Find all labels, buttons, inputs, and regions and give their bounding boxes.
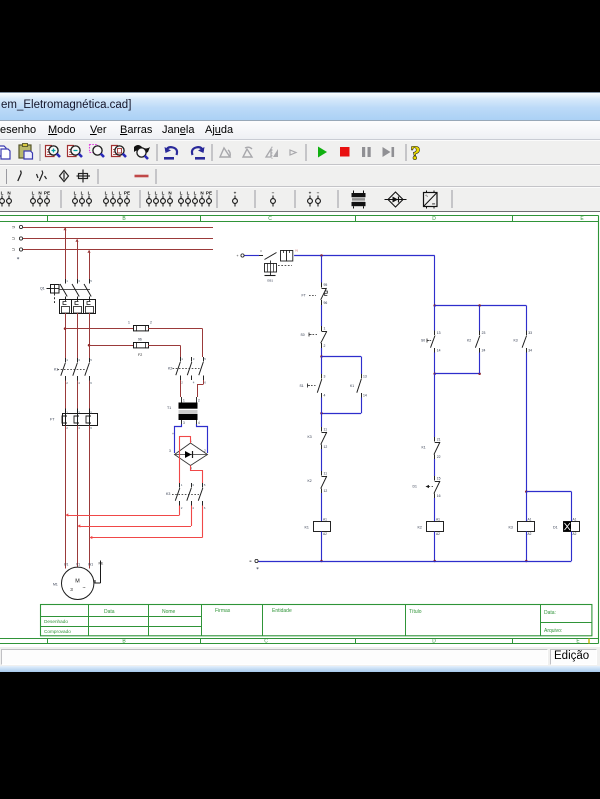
svg-text:Comprovado: Comprovado [44, 629, 71, 634]
svg-text:2: 2 [198, 399, 200, 403]
svg-text:+: + [234, 191, 237, 196]
svg-text:33: 33 [528, 331, 532, 335]
svg-text:M: M [75, 579, 80, 585]
svg-text:N: N [200, 191, 204, 196]
svg-text:11: 11 [324, 472, 328, 476]
svg-text:C: C [264, 638, 268, 644]
svg-text:Título: Título [409, 609, 422, 615]
svg-text:K2: K2 [168, 367, 172, 371]
svg-text:2: 2 [204, 449, 206, 453]
svg-text:3: 3 [192, 483, 194, 487]
svg-text:34: 34 [528, 349, 532, 353]
svg-text:3: 3 [78, 279, 80, 283]
svg-text:4: 4 [78, 426, 80, 430]
svg-text:95: 95 [324, 283, 328, 287]
svg-text:1: 1 [181, 483, 183, 487]
svg-text:K2: K2 [467, 339, 471, 343]
svg-text:1: 1 [128, 321, 130, 325]
svg-text:~: ~ [82, 586, 85, 592]
svg-text:−: − [317, 191, 320, 196]
svg-text:3: 3 [193, 357, 195, 361]
svg-text:D1: D1 [413, 485, 417, 489]
svg-text:Arquivo:: Arquivo: [544, 628, 562, 634]
svg-text:2: 2 [181, 506, 183, 510]
svg-text:15: 15 [437, 477, 441, 481]
svg-text:S0: S0 [421, 339, 425, 343]
svg-text:96: 96 [324, 301, 328, 305]
svg-text:A2: A2 [573, 532, 577, 536]
svg-text:K3: K3 [166, 492, 170, 496]
svg-text:FT: FT [302, 294, 306, 298]
svg-text:L: L [81, 191, 84, 196]
svg-text:N: N [296, 249, 298, 253]
svg-text:3: 3 [78, 358, 80, 362]
svg-text:A2: A2 [436, 532, 440, 536]
svg-text:D: D [432, 638, 436, 644]
svg-text:4: 4 [198, 421, 200, 425]
svg-text:S1: S1 [300, 384, 304, 388]
svg-text:A1: A1 [573, 518, 577, 522]
svg-text:3: 3 [183, 421, 185, 425]
svg-text:F2: F2 [138, 353, 142, 357]
svg-text:GB1: GB1 [267, 279, 273, 283]
svg-text:Nome: Nome [162, 609, 176, 615]
svg-text:3: 3 [169, 449, 171, 453]
svg-text:?: ? [411, 143, 421, 165]
svg-text:L: L [119, 191, 122, 196]
svg-text:L: L [74, 191, 77, 196]
svg-text:5: 5 [204, 483, 206, 487]
svg-text:L: L [162, 191, 165, 196]
svg-text:FT: FT [50, 418, 55, 422]
svg-text:⎓: ⎓ [432, 202, 436, 207]
svg-text:∗: ∗ [256, 566, 259, 571]
svg-text:PE: PE [206, 191, 212, 196]
svg-text:⊃: ⊃ [12, 247, 16, 252]
svg-text:Entidade: Entidade [272, 608, 292, 614]
svg-text:A1: A1 [436, 518, 440, 522]
svg-text:4: 4 [192, 506, 194, 510]
svg-text:3: 3 [70, 587, 73, 592]
svg-text:L: L [32, 191, 35, 196]
svg-text:A1: A1 [323, 518, 327, 522]
svg-text:A2: A2 [323, 532, 327, 536]
svg-text:2: 2 [66, 426, 68, 430]
svg-text:1: 1 [183, 399, 185, 403]
svg-text:D1: D1 [553, 526, 558, 530]
svg-text:L: L [155, 191, 158, 196]
svg-text:1: 1 [181, 357, 183, 361]
svg-text:22: 22 [437, 455, 441, 459]
svg-text:4: 4 [324, 394, 326, 398]
svg-text:96: 96 [138, 338, 142, 342]
svg-text:5: 5 [90, 358, 92, 362]
svg-text:N: N [168, 191, 172, 196]
svg-text:Data:: Data: [544, 610, 556, 616]
svg-text:K3: K3 [308, 435, 312, 439]
svg-text:∗: ∗ [16, 256, 19, 261]
svg-text:⊃: ⊃ [12, 236, 16, 241]
svg-text:5: 5 [204, 357, 206, 361]
svg-text:14: 14 [363, 394, 367, 398]
svg-text:5: 5 [90, 279, 92, 283]
svg-text:L: L [88, 191, 91, 196]
svg-text:21: 21 [437, 438, 441, 442]
svg-text:K3: K3 [514, 339, 518, 343]
svg-text:4: 4 [78, 381, 80, 385]
svg-text:N: N [38, 191, 42, 196]
svg-text:K1: K1 [350, 384, 354, 388]
svg-text:PE: PE [99, 562, 104, 566]
svg-text:PE: PE [124, 191, 130, 196]
svg-text:L: L [187, 191, 190, 196]
svg-text:6: 6 [90, 426, 92, 430]
svg-text:N: N [7, 191, 11, 196]
svg-text:K2: K2 [308, 479, 312, 483]
svg-text:1: 1 [66, 279, 68, 283]
svg-text:12: 12 [324, 489, 328, 493]
svg-text:6: 6 [90, 381, 92, 385]
svg-text:16: 16 [437, 494, 441, 498]
svg-text:1: 1 [324, 327, 326, 331]
svg-text:∿: ∿ [425, 193, 428, 198]
svg-text:6: 6 [204, 506, 206, 510]
svg-text:Data: Data [104, 609, 115, 615]
svg-text:L: L [194, 191, 197, 196]
svg-text:3: 3 [324, 375, 326, 379]
svg-text:A1: A1 [528, 518, 532, 522]
svg-text:+: + [172, 432, 174, 436]
svg-text:K1: K1 [54, 368, 58, 372]
svg-text:12: 12 [324, 445, 328, 449]
svg-text:+: + [309, 191, 312, 196]
svg-text:D: D [432, 216, 436, 222]
svg-text:A2: A2 [528, 532, 532, 536]
svg-text:≡: ≡ [249, 559, 252, 564]
svg-text:L: L [112, 191, 115, 196]
svg-text:2: 2 [150, 321, 152, 325]
svg-text:W1: W1 [88, 563, 93, 567]
svg-text:K1: K1 [305, 526, 309, 530]
svg-text:2: 2 [66, 381, 68, 385]
svg-text:U1: U1 [64, 563, 68, 567]
svg-text:2: 2 [181, 381, 183, 385]
svg-text:1: 1 [66, 358, 68, 362]
svg-text:+: + [236, 254, 239, 258]
svg-text:2: 2 [324, 344, 326, 348]
svg-text:13: 13 [437, 331, 441, 335]
svg-text:−: − [272, 191, 275, 196]
svg-text:L: L [180, 191, 183, 196]
svg-text:C: C [268, 216, 272, 222]
svg-text:Firmas: Firmas [215, 608, 231, 614]
svg-text:13: 13 [363, 375, 367, 379]
svg-text:6: 6 [204, 381, 206, 385]
svg-text:PE: PE [44, 191, 50, 196]
svg-text:4: 4 [193, 381, 195, 385]
svg-text:L: L [105, 191, 108, 196]
svg-text:Desenhado: Desenhado [44, 619, 68, 624]
svg-text:14: 14 [437, 349, 441, 353]
svg-text:K3: K3 [509, 526, 513, 530]
svg-text:24: 24 [482, 349, 486, 353]
svg-text:=: = [260, 250, 262, 254]
svg-text:L: L [148, 191, 151, 196]
svg-text:K1: K1 [422, 446, 426, 450]
svg-text:Q1: Q1 [40, 287, 45, 291]
svg-text:23: 23 [482, 331, 486, 335]
svg-text:⊃: ⊃ [12, 225, 16, 230]
svg-text:V1: V1 [76, 563, 80, 567]
svg-text:L: L [1, 191, 4, 196]
svg-text:T1: T1 [167, 406, 171, 410]
svg-text:S0: S0 [301, 333, 305, 337]
svg-text:11: 11 [324, 428, 328, 432]
svg-text:K2: K2 [418, 526, 422, 530]
svg-text:M1: M1 [53, 583, 58, 587]
